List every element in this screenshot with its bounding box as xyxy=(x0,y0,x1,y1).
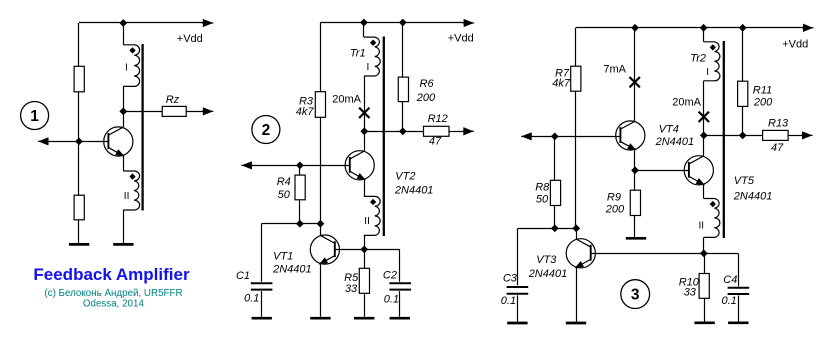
svg-text:R5: R5 xyxy=(344,272,359,284)
svg-text:I: I xyxy=(367,62,370,73)
svg-text:33: 33 xyxy=(684,287,697,299)
svg-text:Odessa, 2014: Odessa, 2014 xyxy=(83,299,145,310)
svg-text:0.1: 0.1 xyxy=(384,294,399,306)
svg-text:II: II xyxy=(124,191,130,202)
svg-text:200: 200 xyxy=(753,97,773,109)
svg-text:Tr2: Tr2 xyxy=(690,52,706,64)
svg-text:20mA: 20mA xyxy=(672,97,701,109)
svg-text:C1: C1 xyxy=(236,270,250,282)
svg-text:C4: C4 xyxy=(723,274,737,286)
svg-text:2N4401: 2N4401 xyxy=(528,268,568,280)
svg-text:47: 47 xyxy=(429,136,442,148)
svg-text:R13: R13 xyxy=(768,118,789,130)
svg-text:50: 50 xyxy=(536,193,549,205)
svg-text:Feedback Amplifier: Feedback Amplifier xyxy=(33,265,190,284)
svg-text:+Vdd: +Vdd xyxy=(782,38,808,50)
svg-text:I: I xyxy=(125,63,128,74)
svg-text:2N4401: 2N4401 xyxy=(272,263,312,275)
svg-text:I: I xyxy=(706,67,709,78)
svg-text:+Vdd: +Vdd xyxy=(448,33,474,45)
svg-text:VT4: VT4 xyxy=(659,124,679,136)
svg-text:R11: R11 xyxy=(753,85,772,97)
svg-text:C2: C2 xyxy=(383,269,397,281)
svg-text:0.1: 0.1 xyxy=(501,295,516,307)
svg-text:200: 200 xyxy=(416,92,436,104)
svg-text:47: 47 xyxy=(771,142,784,154)
svg-text:II: II xyxy=(699,221,705,232)
svg-text:1: 1 xyxy=(30,108,39,125)
svg-text:50: 50 xyxy=(278,189,291,201)
svg-text:Tr1: Tr1 xyxy=(350,48,366,60)
svg-text:R9: R9 xyxy=(607,192,621,204)
svg-text:200: 200 xyxy=(605,204,625,216)
svg-text:4k7: 4k7 xyxy=(296,106,315,118)
svg-text:0.1: 0.1 xyxy=(722,295,737,307)
svg-text:VT3: VT3 xyxy=(536,254,557,266)
svg-text:20mA: 20mA xyxy=(332,93,361,105)
svg-text:2N4401: 2N4401 xyxy=(394,185,434,197)
svg-text:Rz: Rz xyxy=(166,94,180,106)
svg-text:33: 33 xyxy=(345,283,358,295)
svg-text:C3: C3 xyxy=(503,273,518,285)
svg-text:II: II xyxy=(364,216,370,227)
svg-text:+Vdd: +Vdd xyxy=(177,33,203,45)
svg-text:VT1: VT1 xyxy=(273,251,293,263)
svg-text:VT2: VT2 xyxy=(395,171,415,183)
svg-text:VT5: VT5 xyxy=(734,175,755,187)
svg-text:4k7: 4k7 xyxy=(552,78,571,90)
svg-text:R6: R6 xyxy=(420,78,435,90)
svg-text:0.1: 0.1 xyxy=(244,293,259,305)
svg-text:2: 2 xyxy=(262,122,271,139)
svg-text:R4: R4 xyxy=(277,176,291,188)
svg-text:(c) Белоконь Андрей, UR5FFR: (c) Белоконь Андрей, UR5FFR xyxy=(44,288,182,299)
svg-text:2N4401: 2N4401 xyxy=(655,136,695,148)
svg-text:3: 3 xyxy=(631,287,640,304)
svg-text:7mA: 7mA xyxy=(603,63,626,75)
svg-text:R12: R12 xyxy=(428,113,448,125)
svg-text:R8: R8 xyxy=(535,181,550,193)
svg-text:2N4401: 2N4401 xyxy=(733,191,773,203)
